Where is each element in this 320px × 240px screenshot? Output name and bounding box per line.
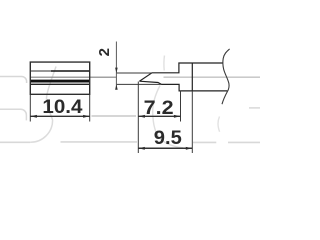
centerline right segment (through shaft and break): [164, 76, 261, 78]
dimension 9.5: right arrow: [186, 147, 193, 150]
body thick band: [31, 80, 89, 83]
dimension 7.2: left arrow: [138, 115, 145, 118]
dimension 10.4: extension line left: [29, 95, 31, 122]
tip body front view rectangle: [30, 62, 89, 94]
centerline left segment (through body): [31, 76, 116, 78]
dimension 9.5: extension line right: [191, 91, 193, 153]
watermark right edge gray line: [249, 107, 260, 109]
svg-text:10.4: 10.4: [42, 96, 82, 118]
dimension 10.4: extension line right: [89, 95, 91, 122]
svg-text:7.2: 7.2: [144, 97, 174, 119]
body inner line 1 darker right segment: [51, 70, 89, 72]
dimension 2: arrow down to top extension: [115, 68, 118, 73]
watermark top-left gray step line: [0, 109, 26, 120]
watermark faint break curve right: [218, 117, 220, 132]
watermark bottom-left gray line: [0, 141, 30, 143]
dimension 9.5: left arrow: [138, 147, 145, 150]
dimension 7.2: right arrow: [174, 115, 181, 118]
svg-text:9.5: 9.5: [154, 127, 182, 149]
break S-curve: [222, 49, 230, 104]
dimension 10.4: right arrow: [83, 115, 90, 118]
svg-text:2: 2: [96, 48, 113, 56]
dimension 7.2: extension line right: [180, 91, 182, 122]
watermark left gray step line upper: [0, 77, 27, 84]
dimension 9.5: dimension line: [138, 147, 192, 149]
dimension 7.2: dimension line: [138, 115, 180, 117]
dimension 2: arrow up to bottom extension: [115, 84, 118, 89]
dimension 7.2: extension line left: [137, 82, 139, 122]
body inner line 2: [31, 83, 89, 85]
blade profile top outline: [139, 63, 222, 81]
dimension 2: dimension line vertical: [115, 42, 117, 89]
dimension 2: extension line bottom: [116, 83, 161, 85]
dimension 10.4: left arrow: [30, 115, 37, 118]
blade profile bottom outline: [139, 81, 227, 91]
watermark bottom-middle gray line: [61, 141, 138, 143]
dimension 10.4: dimension line: [30, 115, 89, 117]
watermark faint curve behind 9.5: [153, 86, 183, 148]
watermark faint vertical above blade: [163, 56, 166, 71]
dimension 2: extension line top: [116, 72, 151, 74]
watermark bottom-right gray lines: [193, 141, 216, 143]
dimension 9.5: extension line left: [137, 122, 139, 154]
joint line: [191, 63, 193, 91]
watermark arc and wavy curve: [30, 67, 56, 143]
body inner line 1: [31, 70, 89, 72]
watermark gray line right of 10.4 dimension: [92, 115, 137, 117]
